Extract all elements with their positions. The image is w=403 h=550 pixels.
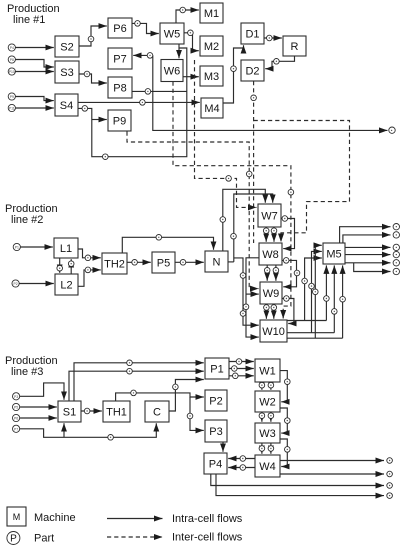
machine M3 bbox=[200, 66, 223, 86]
wire M5 top out 1 bbox=[340, 227, 391, 243]
wire P2 to L2 bbox=[19, 283, 54, 285]
svg-text:W3: W3 bbox=[259, 428, 276, 440]
svg-text:S1: S1 bbox=[63, 407, 76, 419]
svg-text:line #3: line #3 bbox=[11, 366, 43, 378]
wire TH2 top to N bbox=[122, 237, 213, 253]
wire P1 to L1 bbox=[20, 246, 52, 248]
wire M5 right out 3 bbox=[345, 262, 391, 264]
svg-text:P1: P1 bbox=[15, 246, 19, 250]
wire W10 right line1 bbox=[287, 320, 326, 322]
wire riser to M5 left 2 bbox=[312, 251, 322, 332]
wire W3 to W4 stub1 bbox=[261, 443, 263, 454]
svg-text:M2: M2 bbox=[204, 41, 219, 53]
wire S1 riser to P1 line1 bbox=[74, 363, 204, 401]
machine R bbox=[283, 36, 306, 56]
svg-text:M3: M3 bbox=[204, 71, 219, 83]
wire P8 to S3 bbox=[15, 60, 53, 68]
machine W5 bbox=[160, 23, 184, 44]
part P5 bbox=[13, 403, 20, 410]
wire W1 to W2 stub1 bbox=[261, 382, 263, 390]
wire W2 to W3 stub2 bbox=[270, 412, 272, 422]
wire P6b to S1 bbox=[20, 417, 57, 419]
wire P1 to W1 line3 bbox=[229, 375, 254, 377]
svg-text:P7: P7 bbox=[14, 427, 18, 431]
wire M5 right out 4 bbox=[354, 263, 391, 272]
wire W9 to W10 stub1 bbox=[265, 304, 267, 319]
svg-text:P8: P8 bbox=[113, 83, 126, 95]
machine S1 bbox=[58, 401, 81, 422]
machine W1 bbox=[255, 359, 280, 382]
part P2 bbox=[12, 280, 19, 287]
part P7 bbox=[13, 425, 20, 432]
part P6 bbox=[13, 414, 20, 421]
svg-text:P7: P7 bbox=[113, 54, 126, 66]
nodes line2 bbox=[57, 216, 346, 317]
machine L2 bbox=[55, 274, 78, 295]
machine S3 bbox=[55, 61, 79, 83]
machine C bbox=[145, 401, 169, 422]
wire W8 loop arrow to W9 bbox=[246, 293, 259, 295]
svg-text:W2: W2 bbox=[259, 397, 276, 409]
title production line 2 bbox=[5, 203, 58, 226]
wire N top to W7 bbox=[223, 189, 265, 251]
wire D1 to R bbox=[264, 37, 282, 39]
wire W4 to P4 line2 bbox=[228, 467, 255, 469]
machine W8 bbox=[259, 243, 282, 265]
svg-text:P6: P6 bbox=[14, 417, 18, 421]
svg-text:P9: P9 bbox=[10, 95, 14, 99]
wire N right stub bbox=[228, 261, 234, 263]
wire S4 to M4 bbox=[78, 101, 200, 103]
svg-text:M: M bbox=[13, 512, 21, 522]
machine P1 bbox=[205, 358, 229, 379]
machine L1 bbox=[54, 238, 78, 258]
wire riser to M5 left 3 bbox=[315, 245, 322, 338]
wire P7b to S1 bottom and C bbox=[20, 423, 157, 437]
part P11 bbox=[8, 104, 15, 111]
wire W8 to W9 stub1 bbox=[266, 265, 268, 281]
wire P3 to S1 top bbox=[20, 383, 64, 400]
svg-text:line #2: line #2 bbox=[11, 214, 43, 226]
machine M1 bbox=[200, 3, 223, 23]
svg-text:Machine: Machine bbox=[34, 512, 76, 524]
terminal nodes right edge bbox=[387, 127, 400, 498]
machine S4 bbox=[55, 94, 78, 116]
wire W4 out 1 bbox=[280, 460, 384, 462]
wire W8 to W9 stub2 bbox=[275, 265, 277, 281]
machine P7 bbox=[108, 48, 132, 69]
wire riser to M5 bottom 2 bbox=[333, 265, 335, 332]
machine D2 bbox=[241, 60, 264, 81]
svg-text:P2: P2 bbox=[209, 396, 222, 408]
svg-text:P3: P3 bbox=[14, 395, 18, 399]
wire W3 right to W4 right bbox=[280, 439, 287, 467]
part P1 bbox=[13, 243, 20, 250]
wire M5 right out 1 bbox=[345, 246, 391, 248]
wire P5 to S1 bbox=[20, 406, 57, 408]
wire W8 right to W9 right bbox=[282, 260, 297, 286]
svg-text:P9: P9 bbox=[113, 116, 126, 128]
wire W7 right to W8 right bbox=[281, 219, 295, 249]
machine W2 bbox=[255, 391, 280, 412]
svg-text:Part: Part bbox=[34, 533, 54, 545]
machine P4 bbox=[204, 453, 227, 474]
wire P3 to P4 bbox=[222, 442, 224, 452]
wire P5 to N bbox=[175, 261, 204, 263]
wire L2 to TH2 bbox=[78, 270, 101, 286]
wire S1 riser to P1 line2 bbox=[69, 371, 204, 401]
svg-text:Inter-cell flows: Inter-cell flows bbox=[172, 532, 243, 544]
wire P8 out bbox=[132, 90, 187, 92]
machine P8 bbox=[108, 77, 132, 98]
machine P9 bbox=[108, 110, 131, 131]
machine P6 bbox=[108, 18, 132, 38]
legend machine box bbox=[7, 507, 26, 526]
svg-text:L1: L1 bbox=[60, 243, 72, 255]
svg-text:W4: W4 bbox=[259, 461, 276, 473]
svg-text:D1: D1 bbox=[245, 29, 259, 41]
wire W2 right to W3 right bbox=[280, 408, 287, 433]
svg-text:P4: P4 bbox=[209, 459, 222, 471]
nodes line3 bbox=[84, 359, 290, 471]
svg-text:Intra-cell flows: Intra-cell flows bbox=[172, 513, 243, 525]
wire P4 to S2 bbox=[15, 47, 53, 49]
machine W3 bbox=[255, 423, 280, 443]
wire S1 to TH1 bbox=[81, 410, 102, 412]
svg-text:P8: P8 bbox=[10, 58, 14, 62]
wire S4 long branch bbox=[78, 48, 187, 157]
wire W7 to W8 stub1 bbox=[265, 227, 267, 242]
machine P3 bbox=[205, 420, 227, 442]
wire riser to M5 left 1 bbox=[305, 258, 322, 321]
machine P2 bbox=[205, 390, 227, 411]
wire riser to M5 bottom 3 bbox=[342, 265, 344, 338]
wire S2 to P6 bbox=[79, 26, 107, 46]
part P8 bbox=[8, 56, 15, 63]
svg-text:W1: W1 bbox=[259, 366, 276, 378]
svg-text:S3: S3 bbox=[60, 67, 73, 79]
wire arrow up into S1 bottom bbox=[63, 423, 65, 437]
machine TH1 bbox=[103, 401, 130, 422]
wire L2 to L1 bbox=[70, 259, 72, 274]
wire P11 to S4 bbox=[15, 107, 53, 109]
svg-text:P5: P5 bbox=[14, 406, 18, 410]
machine M2 bbox=[200, 36, 223, 56]
wire W5 to M2 bbox=[184, 33, 199, 51]
wire W8 left loop to W9 and W10 bbox=[246, 258, 259, 337]
svg-text:P: P bbox=[10, 534, 17, 545]
title production line 3 bbox=[5, 355, 58, 378]
wire W5 to M1 bbox=[176, 10, 199, 23]
wire M5 top out 2 bbox=[343, 235, 391, 243]
svg-text:TH1: TH1 bbox=[106, 407, 127, 419]
wire P4 out 2 bbox=[216, 474, 384, 496]
machine D1 bbox=[241, 23, 264, 44]
svg-text:S2: S2 bbox=[60, 42, 73, 54]
wire dashed P9 to W9 bbox=[127, 132, 259, 289]
svg-text:W6: W6 bbox=[164, 66, 181, 78]
wire W1 to W2 stub2 bbox=[270, 382, 272, 390]
wire M5 right out 2 bbox=[345, 254, 391, 256]
wire TH2 to P5 bbox=[127, 261, 151, 263]
machine N bbox=[205, 251, 228, 272]
svg-text:W10: W10 bbox=[262, 326, 285, 338]
svg-text:P10: P10 bbox=[9, 70, 15, 74]
wire L1 to L2 bbox=[59, 258, 61, 273]
svg-text:P1: P1 bbox=[210, 364, 223, 376]
wire P6 to W5 bbox=[132, 23, 159, 33]
part P10 bbox=[8, 68, 15, 75]
svg-text:P5: P5 bbox=[157, 258, 170, 270]
wire L1 to TH2 bbox=[78, 249, 101, 258]
svg-text:TH2: TH2 bbox=[104, 259, 125, 271]
wire P1 to W1 line2 bbox=[229, 368, 254, 370]
svg-text:P6: P6 bbox=[113, 23, 126, 35]
svg-text:P11: P11 bbox=[9, 107, 15, 111]
wire W6 to M3 bbox=[183, 76, 199, 78]
wire W10 right line3 bbox=[287, 337, 343, 339]
part P4 bbox=[8, 44, 15, 51]
svg-text:P3: P3 bbox=[209, 426, 222, 438]
legend inter-cell arrow bbox=[107, 536, 163, 538]
wire W9 to W10 stub2 bbox=[273, 304, 275, 319]
svg-text:S4: S4 bbox=[60, 100, 73, 112]
wire W1 right to W2 right bbox=[280, 371, 287, 402]
machine W9 bbox=[260, 282, 282, 304]
wire C to P1 bbox=[169, 380, 204, 412]
wire W7 to W8 stub2 bbox=[273, 227, 275, 242]
nodes line1 bbox=[82, 7, 294, 195]
legend part circle bbox=[7, 532, 20, 545]
machine W10 bbox=[260, 320, 287, 342]
wire riser to M5 bottom 1 bbox=[325, 265, 327, 320]
svg-text:W8: W8 bbox=[262, 249, 279, 261]
svg-text:L2: L2 bbox=[60, 280, 72, 292]
svg-text:W9: W9 bbox=[263, 288, 280, 300]
svg-text:M5: M5 bbox=[326, 249, 341, 261]
wire long line to right out bbox=[153, 55, 388, 130]
machine M4 bbox=[201, 98, 223, 118]
wire W4 out 2 bbox=[280, 473, 384, 475]
svg-text:P4: P4 bbox=[10, 46, 14, 50]
wire W10 right line2 bbox=[287, 332, 334, 334]
svg-text:P2: P2 bbox=[14, 282, 18, 286]
wire S3 to P8 bbox=[79, 74, 107, 83]
svg-text:M1: M1 bbox=[204, 8, 219, 20]
wire branch to P3 bbox=[190, 397, 204, 430]
svg-text:R: R bbox=[291, 41, 299, 53]
wire dashed D2 down bbox=[253, 81, 255, 243]
machine TH2 bbox=[102, 253, 127, 274]
wire W5 to W6 bbox=[178, 44, 180, 58]
wire riser to W7 second arrow bbox=[234, 194, 273, 262]
machine W6 bbox=[161, 60, 183, 82]
svg-text:D2: D2 bbox=[245, 66, 259, 78]
wire into P7 bbox=[133, 54, 153, 56]
wire W2 to W3 stub1 bbox=[261, 412, 263, 422]
svg-text:W7: W7 bbox=[261, 211, 278, 223]
svg-text:C: C bbox=[153, 407, 161, 419]
wire descender to W10 left bbox=[234, 258, 259, 325]
legend intra-cell arrow bbox=[107, 518, 163, 520]
wire P9 to S4 bbox=[15, 97, 53, 101]
part P3 bbox=[13, 393, 20, 400]
wire dashed M3 to W7 bbox=[195, 60, 257, 207]
wire dashed W6 to W10 bbox=[173, 82, 291, 319]
wire TH1 top to P2 bbox=[116, 393, 204, 401]
wire P10 to S3 bbox=[15, 71, 53, 73]
wire W3 to W4 stub2 bbox=[270, 443, 272, 454]
svg-text:M4: M4 bbox=[204, 103, 219, 115]
machine P5 bbox=[152, 252, 175, 273]
wire M4 to D1 bbox=[223, 45, 244, 103]
svg-text:N: N bbox=[213, 257, 221, 269]
svg-text:line #1: line #1 bbox=[13, 14, 45, 26]
wire P4 out 1 bbox=[211, 474, 384, 486]
machine W4 bbox=[255, 455, 280, 477]
machine M5 bbox=[323, 243, 345, 264]
wire dashed D2 branch to W8 bbox=[254, 121, 350, 243]
machine S2 bbox=[55, 36, 79, 57]
part P9 bbox=[8, 93, 15, 100]
title production line 1 bbox=[7, 3, 60, 26]
svg-text:W5: W5 bbox=[164, 29, 181, 41]
wire S4 to P9 bbox=[92, 119, 107, 121]
wire W9 right to W10 right bbox=[282, 299, 294, 324]
wire P1 to W1 line1 bbox=[229, 361, 254, 363]
machine W7 bbox=[258, 204, 281, 227]
wire R to D2 bbox=[265, 56, 294, 69]
wire W4 to P4 line1 bbox=[228, 458, 255, 460]
